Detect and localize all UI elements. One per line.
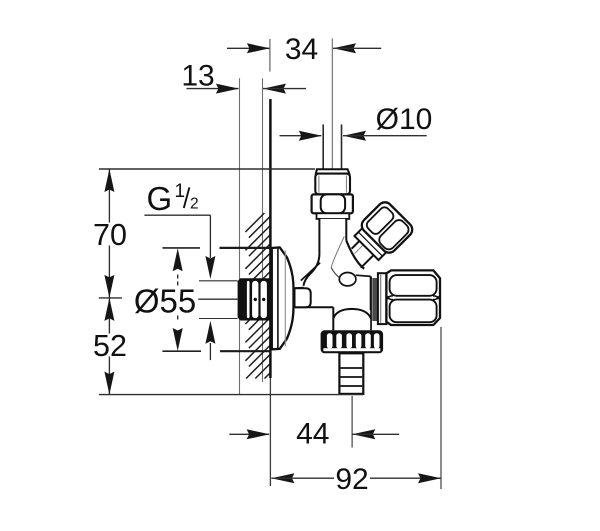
valve body neck tube from top fitting: [320, 219, 345, 269]
barb centerline extension: [351, 396, 353, 448]
angled outlet fitting (45 deg compression nut): [335, 199, 416, 280]
top fitting lower ring: [317, 213, 350, 219]
svg-text:92: 92: [335, 463, 368, 496]
wall flange rosette: [272, 247, 294, 349]
hose barb outlet: [339, 353, 363, 394]
knurled hose-union knob: [321, 330, 384, 353]
extension line top (70 dim upper): [99, 168, 315, 170]
dimension diameter 55 (flange): [162, 247, 200, 249]
dimension 92: [271, 473, 294, 483]
svg-text:Ø10: Ø10: [376, 103, 433, 136]
supply pipe (vertical, top): [322, 124, 324, 169]
extension line bottom (52 dim lower): [99, 394, 363, 396]
svg-text:1: 1: [175, 181, 186, 202]
svg-text:70: 70: [93, 218, 127, 252]
dimension 44: [229, 433, 269, 435]
svg-text:44: 44: [296, 418, 329, 451]
svg-text:Ø55: Ø55: [134, 283, 196, 320]
svg-text:13: 13: [181, 59, 214, 92]
top compression fitting cap: [316, 169, 350, 173]
dimension diameter 10: [280, 135, 322, 137]
svg-text:52: 52: [93, 329, 127, 363]
inner throat lines: [331, 237, 344, 268]
dimension 34: [227, 47, 269, 49]
svg-text:34: 34: [285, 33, 318, 66]
dimension 13: [187, 88, 239, 90]
G1/2 leader vertical with arrows: [209, 215, 211, 258]
svg-text:2: 2: [190, 196, 199, 213]
dimension line 70/52 vertical: [108, 169, 110, 223]
extension stub for dim 34 at wall: [269, 39, 271, 72]
extension line B (rough wall surface, x=262.5): [262, 78, 264, 382]
top fitting hex nut: [312, 194, 353, 213]
right compression nut: [386, 270, 440, 325]
tick between 70 and 52: [99, 297, 122, 299]
wall hatching: [245, 213, 270, 379]
Y shoulder to angled outlet: [346, 241, 364, 269]
nipple extension stubs: [199, 280, 238, 282]
valve body main block: [295, 288, 373, 307]
wall surface line: [269, 99, 272, 378]
right extension line (nut edge): [440, 327, 442, 489]
right collar washer: [378, 273, 387, 324]
right outlet tube (shaded): [372, 278, 377, 321]
extension line A (pipe offset, x=239.5): [239, 78, 241, 394]
body shoulder lines: [301, 263, 320, 281]
boss ellipse where angled tube meets body: [339, 273, 356, 286]
svg-text:G: G: [147, 180, 173, 217]
neck hexagon: [295, 288, 311, 307]
top fitting barrel: [315, 174, 350, 195]
bottom outlet dome: [334, 310, 370, 331]
body right edge: [370, 276, 372, 330]
pipe centerline: [331, 38, 333, 168]
O55 leader to flange: [198, 298, 237, 300]
threaded nipple G1/2: [238, 278, 272, 320]
